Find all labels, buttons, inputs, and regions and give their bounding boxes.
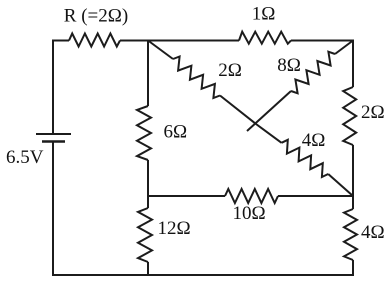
svg-text:2Ω: 2Ω <box>361 102 385 123</box>
resistor 12Ω body <box>138 208 152 262</box>
wire: node C down to 4Ω right <box>352 196 354 209</box>
wire: 12Ω to bottom rail <box>147 262 149 275</box>
wire: battery + up and top-left to R <box>53 41 69 135</box>
wire: 10Ω to node C <box>278 195 353 197</box>
wire: top-right (1Ω to node B) and down to 2Ω <box>291 41 353 88</box>
wire: 8Ω to junction X (stub crossing over) <box>247 91 291 131</box>
svg-text:4Ω: 4Ω <box>302 130 326 151</box>
battery 6.5V positive plate (long) <box>36 133 71 135</box>
wire: junction X to 4Ω diagonal <box>256 124 282 143</box>
wire: top middle (R through node A to 1Ω) <box>120 40 239 42</box>
resistor 4Ω (bottom right branch) body <box>344 209 357 260</box>
resistor 1Ω body <box>239 32 291 44</box>
resistor 6Ω body <box>137 106 151 160</box>
wire: 2Ω diagonal to junction X <box>220 96 256 125</box>
svg-text:8Ω: 8Ω <box>277 55 301 76</box>
wire: bottom rail (4Ω right to bottom corners to battery -) <box>53 142 353 276</box>
wire: 6Ω to node D <box>147 160 149 196</box>
wire: node D down to 12Ω <box>147 196 149 208</box>
battery 6.5V negative plate (short) <box>42 140 65 143</box>
wire: node D to 10Ω <box>148 195 225 197</box>
svg-text:R (=2Ω): R (=2Ω) <box>64 6 128 27</box>
svg-text:2Ω: 2Ω <box>218 60 242 81</box>
resistor 2Ω (right branch) body <box>343 87 356 145</box>
resistor 8Ω body <box>291 52 335 94</box>
svg-text:6Ω: 6Ω <box>164 122 188 143</box>
svg-text:12Ω: 12Ω <box>158 218 191 239</box>
svg-text:4Ω: 4Ω <box>361 222 385 243</box>
wire: node A to 2Ω diagonal <box>148 41 173 60</box>
wire: 4Ω diagonal to node C <box>328 174 353 196</box>
resistor 10Ω body <box>225 189 278 203</box>
wire: node B to 8Ω diagonal <box>335 41 353 55</box>
svg-text:10Ω: 10Ω <box>232 203 265 224</box>
wire: 2Ω right to node C <box>352 145 354 196</box>
resistor 2Ω (diagonal) body <box>173 57 220 99</box>
resistor 4Ω (diagonal) body <box>282 140 329 177</box>
wire: node A down to 6Ω <box>147 41 149 107</box>
resistor R (=2Ω) body <box>69 34 120 47</box>
svg-text:1Ω: 1Ω <box>252 4 276 25</box>
svg-text:6.5V: 6.5V <box>6 147 44 168</box>
